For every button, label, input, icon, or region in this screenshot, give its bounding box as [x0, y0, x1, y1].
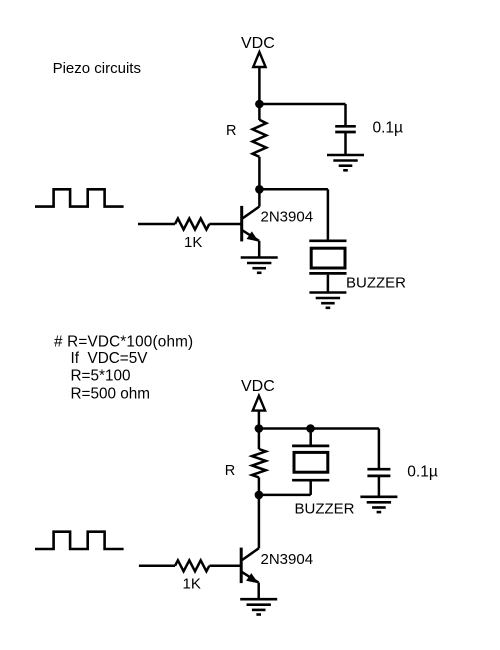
svg-text:BUZZER: BUZZER — [346, 275, 406, 292]
svg-text:2N3904: 2N3904 — [261, 551, 314, 568]
svg-text:R=5*100: R=5*100 — [71, 368, 131, 385]
svg-text:2N3904: 2N3904 — [261, 209, 314, 226]
svg-text:If VDC=5V: If VDC=5V — [71, 350, 149, 367]
svg-text:R=500 ohm: R=500 ohm — [71, 385, 151, 402]
svg-text:VDC: VDC — [241, 378, 275, 395]
svg-text:0.1µ: 0.1µ — [407, 464, 438, 481]
svg-text:R: R — [226, 123, 236, 139]
svg-text:0.1µ: 0.1µ — [373, 119, 404, 136]
svg-text:1K: 1K — [184, 234, 202, 251]
svg-text:BUZZER: BUZZER — [295, 501, 355, 518]
svg-text:R: R — [225, 463, 235, 479]
svg-text:Piezo circuits: Piezo circuits — [53, 60, 141, 77]
svg-text:1K: 1K — [183, 576, 201, 593]
svg-text:# R=VDC*100(ohm): # R=VDC*100(ohm) — [54, 333, 193, 350]
svg-text:VDC: VDC — [241, 35, 275, 52]
